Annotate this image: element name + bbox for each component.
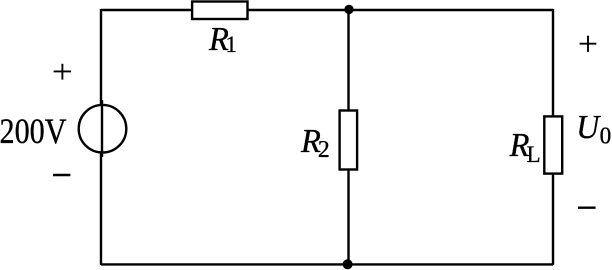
svg-text:200V: 200V xyxy=(0,113,67,152)
svg-text:1: 1 xyxy=(225,32,236,58)
svg-text:2: 2 xyxy=(318,135,330,162)
svg-text:U: U xyxy=(576,109,601,146)
svg-text:L: L xyxy=(527,142,541,168)
svg-text:0: 0 xyxy=(600,123,612,150)
